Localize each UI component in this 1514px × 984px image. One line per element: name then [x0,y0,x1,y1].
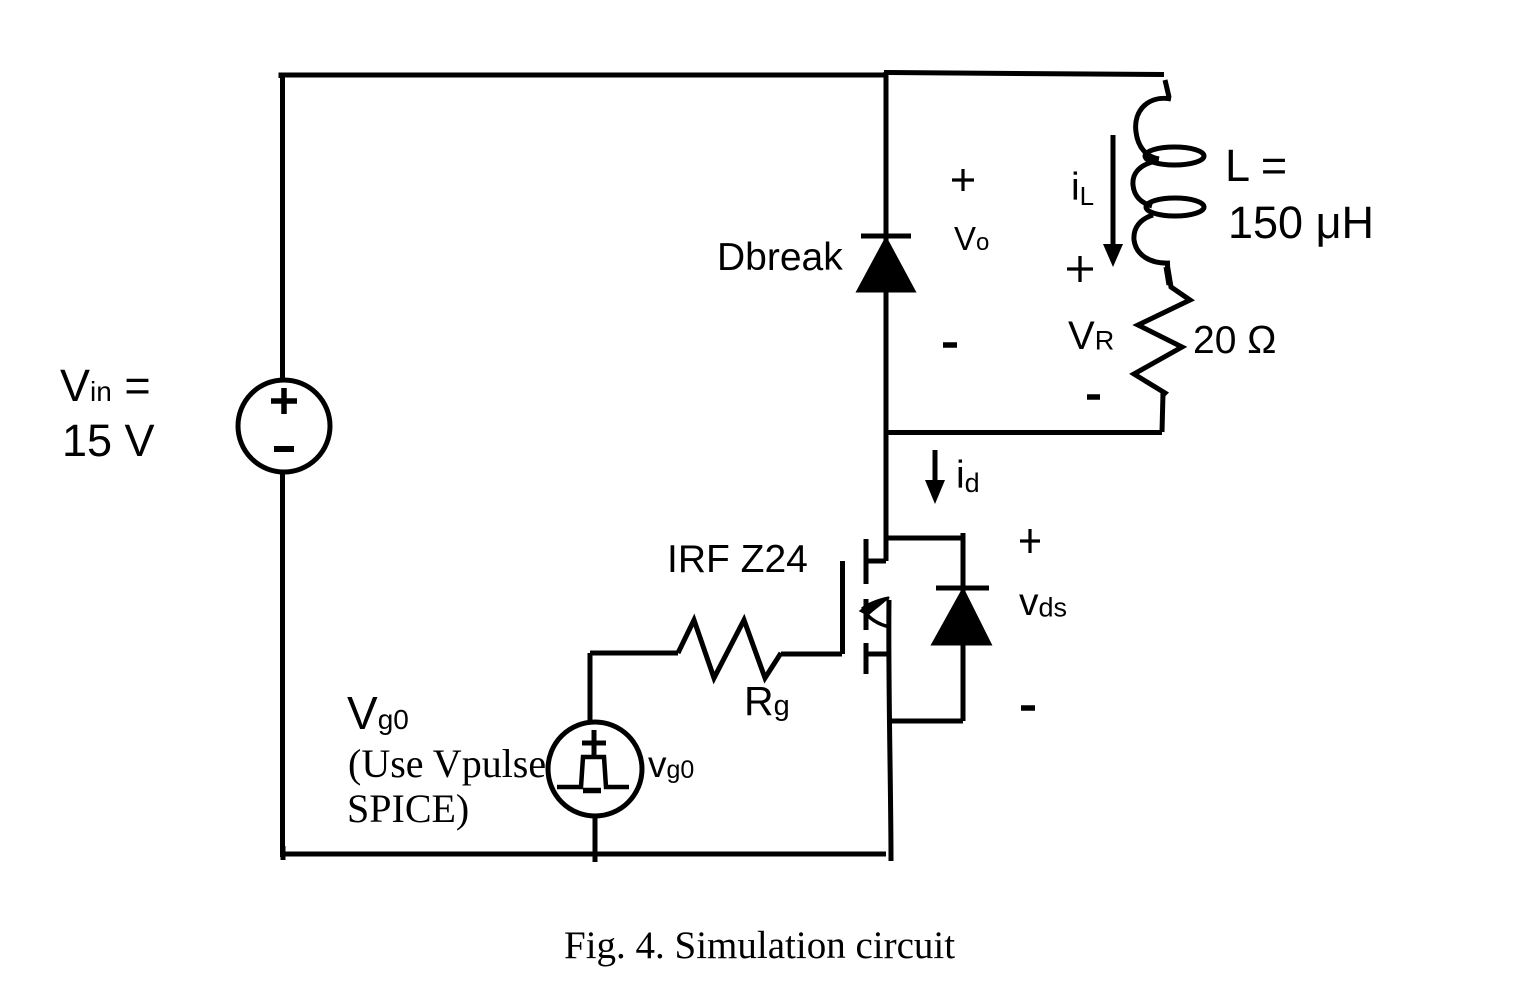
body diode triangle [933,590,990,644]
wire drain junction to body-diode branch [888,536,963,541]
drain lead [864,559,886,564]
wire Vg0 top vertical [588,653,593,723]
wire inductor bottom tick [1166,267,1169,285]
wire body-diode branch bottom [890,719,963,724]
wire bottom (ground return) [281,852,886,857]
svg-text:Vin =: Vin = [60,360,151,411]
svg-text:IRF Z24: IRF Z24 [667,538,808,581]
source Vg0 circle [548,722,642,816]
wire source to bottom [889,600,891,861]
svg-text:id: id [956,454,980,498]
current arrow iL [1103,135,1123,267]
channel bar drain [864,539,869,584]
body arrow head [860,598,888,615]
body diode cathode bar [936,586,989,591]
wire bottom left end tick [281,846,286,860]
Vin minus sign [274,446,294,452]
wire Vg0 bottom vertical [593,816,598,862]
Vg0 minus sign [583,788,601,794]
current arrow id [925,450,945,504]
node VR minus sign [1087,394,1100,400]
svg-text:L =: L = [1225,140,1287,191]
node Vo minus sign [943,342,957,348]
gate bar [840,561,845,654]
wire inductor top tick [1165,80,1169,97]
resistor 20 ohm zigzag [1134,263,1190,432]
svg-text:VR: VR [1068,314,1114,358]
channel bar source [864,643,869,674]
wire left vertical upper (Vin+ to top wire) [280,75,285,380]
Vin plus sign [271,388,297,414]
body arrow upper barb [862,598,889,609]
svg-text:Fig. 4. Simulation circuit: Fig. 4. Simulation circuit [564,924,955,967]
diode Dbreak (cathode bar) [861,234,911,239]
node vds minus sign [1021,705,1035,711]
wire body-diode branch vertical [961,533,966,721]
wire node junction to load (horizontal) [886,430,1162,435]
wire left vertical lower (Vin- to bottom wire) [280,472,285,857]
wire top (left segment, Vin top to diode node) [281,75,888,78]
svg-text:iL: iL [1071,166,1094,211]
svg-text:Vo: Vo [954,220,989,257]
Vg0 plus sign [582,730,606,755]
node Vo plus sign [952,169,974,191]
wire from Vg0 to Rg [590,651,678,656]
channel bar body [864,599,869,630]
svg-text:Rg: Rg [744,678,790,724]
Rg zigzag [678,620,781,678]
svg-text:SPICE): SPICE) [347,786,469,831]
source lead [864,652,888,657]
wire Rg to gate [781,652,842,657]
svg-text:Vg0: Vg0 [347,687,409,739]
node vds plus sign [1020,529,1040,553]
wire diode branch vertical (top node through Dbreak to drain) [884,72,889,561]
body arrow lower barb [862,609,890,627]
diode Dbreak (triangle) [858,239,914,291]
svg-text:vds: vds [1019,581,1067,624]
svg-text:Dbreak: Dbreak [717,236,843,279]
wire top (right segment, diode node to inductor) [884,73,1164,75]
svg-text:150 μH: 150 μH [1228,197,1374,248]
voltage source Vin circle [238,380,330,472]
resistor Rg (gate) [590,620,842,678]
node VR plus sign [1067,256,1093,282]
Vg0 pulse waveform [557,757,629,787]
inductor L coil [1133,98,1204,263]
svg-text:20 Ω: 20 Ω [1193,319,1276,362]
svg-text:vg0: vg0 [648,744,694,785]
svg-text:15 V: 15 V [62,415,155,466]
svg-text:(Use Vpulse: (Use Vpulse [348,741,546,786]
transistor IRF Z24 (MOSFET) [843,539,889,674]
